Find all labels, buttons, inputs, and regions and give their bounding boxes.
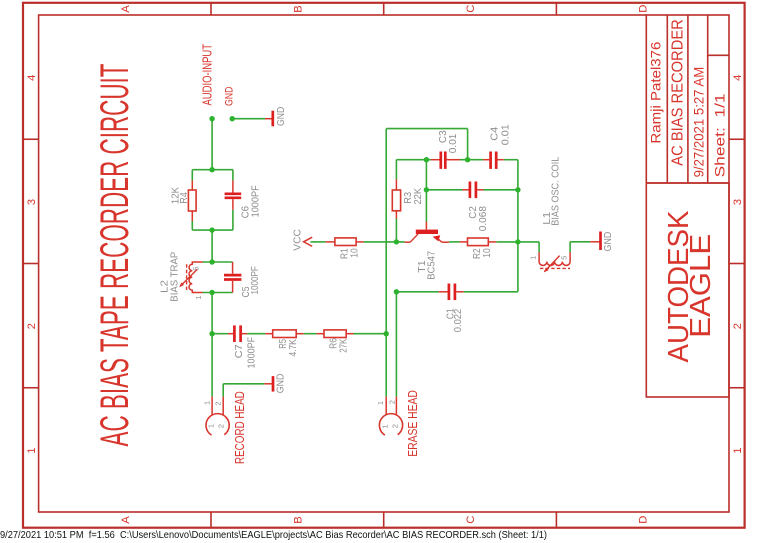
svg-text:1: 1 xyxy=(26,447,38,453)
svg-text:3: 3 xyxy=(26,199,38,205)
wire down to C7 row xyxy=(211,293,213,334)
resistor R2 xyxy=(460,238,497,259)
svg-text:AUDIO-INPUT: AUDIO-INPUT xyxy=(200,44,215,106)
capacitor C2 xyxy=(463,182,489,232)
svg-text:1: 1 xyxy=(376,401,385,405)
svg-text:ERASE HEAD: ERASE HEAD xyxy=(405,390,420,457)
svg-text:BC547: BC547 xyxy=(427,250,438,279)
capacitor C7 xyxy=(228,325,257,368)
svg-text:0.01: 0.01 xyxy=(448,133,459,153)
svg-text:22K: 22K xyxy=(413,188,424,205)
svg-text:A: A xyxy=(120,5,132,13)
svg-text:C7: C7 xyxy=(234,344,245,358)
ground symbol record head xyxy=(264,374,286,394)
svg-text:C4: C4 xyxy=(489,126,500,140)
svg-text:AC BIAS TAPE RECORDER CIRCUIT: AC BIAS TAPE RECORDER CIRCUIT xyxy=(93,64,137,447)
svg-text:A: A xyxy=(120,516,132,524)
frame row ticks left xyxy=(23,139,39,388)
svg-text:GND: GND xyxy=(276,107,287,126)
svg-text:1: 1 xyxy=(194,296,203,300)
svg-text:10: 10 xyxy=(349,248,360,258)
wire base rail xyxy=(425,160,427,222)
svg-text:GND: GND xyxy=(603,232,614,252)
svg-text:1000PF: 1000PF xyxy=(250,266,261,294)
wire record head pin1 xyxy=(211,334,213,397)
svg-text:1: 1 xyxy=(203,401,212,405)
connector RECORD HEAD xyxy=(203,391,247,464)
svg-text:0.01: 0.01 xyxy=(500,124,511,145)
svg-text:B: B xyxy=(293,516,305,524)
wire collector row xyxy=(311,241,518,243)
frame row labels right 4 3 2 1 xyxy=(732,75,744,454)
svg-text:4: 4 xyxy=(26,75,38,81)
wire record head pin2 to gnd xyxy=(223,384,264,397)
svg-text:B: B xyxy=(293,5,305,13)
svg-text:1000PF: 1000PF xyxy=(246,337,257,369)
resistor R1 xyxy=(326,238,364,259)
transistor T1 xyxy=(405,222,449,280)
svg-text:AC BIAS RECORDER: AC BIAS RECORDER xyxy=(670,19,687,166)
ground symbol L1 xyxy=(590,232,614,252)
svg-text:GND: GND xyxy=(224,87,236,106)
svg-text:3: 3 xyxy=(732,199,744,205)
svg-text:2: 2 xyxy=(732,323,744,329)
svg-text:4.7K: 4.7K xyxy=(288,339,299,356)
inductor L1 xyxy=(529,156,571,272)
svg-text:2: 2 xyxy=(391,424,400,428)
wire C1 row xyxy=(396,291,518,293)
svg-text:Ramji Patel376: Ramji Patel376 xyxy=(648,41,664,143)
svg-text:D: D xyxy=(638,516,650,524)
svg-text:D: D xyxy=(638,5,650,13)
resistor R3 xyxy=(392,179,424,218)
capacitor C6 xyxy=(225,180,262,218)
frame column ticks top xyxy=(211,3,556,15)
wire C3/C4 row xyxy=(396,159,518,161)
capacitor C4 xyxy=(483,124,511,169)
wire R4/C6 loop xyxy=(192,170,233,230)
svg-text:27K: 27K xyxy=(339,338,350,352)
wire feedback rail xyxy=(386,129,467,334)
svg-text:9/27/2021 5:27 AM: 9/27/2021 5:27 AM xyxy=(692,67,707,178)
wire C7/R5/R6 row xyxy=(212,333,386,335)
frame row ticks right xyxy=(729,139,745,388)
wire between loops xyxy=(211,230,213,262)
svg-text:2: 2 xyxy=(217,424,226,428)
junction dots xyxy=(209,116,520,336)
resistor R4 xyxy=(170,180,196,221)
svg-text:1: 1 xyxy=(529,256,538,260)
svg-text:2: 2 xyxy=(214,402,223,406)
svg-text:4: 4 xyxy=(732,75,744,81)
capacitor C5 xyxy=(224,262,261,298)
svg-text:10: 10 xyxy=(482,248,493,258)
frame column labels top A B C D xyxy=(120,5,650,13)
svg-text:BIAS TRAP: BIAS TRAP xyxy=(169,251,180,301)
wire erase head pin1 xyxy=(385,334,387,397)
wire C2 row xyxy=(426,189,518,191)
svg-text:C: C xyxy=(465,516,477,524)
wire gnd stub top xyxy=(232,118,265,120)
capacitor C1 xyxy=(439,284,464,333)
wire right rail xyxy=(517,160,519,292)
svg-text:RECORD HEAD: RECORD HEAD xyxy=(232,391,247,464)
capacitor C3 xyxy=(431,130,460,169)
connector ERASE HEAD xyxy=(376,390,420,457)
svg-text:GND: GND xyxy=(275,374,286,394)
wire erase head pin2 xyxy=(395,292,397,397)
svg-text:9/27/2021 10:51 PM f=1.56 C:: 9/27/2021 10:51 PM f=1.56 C:\Users\Lenov… xyxy=(0,530,547,541)
wire L1 branch xyxy=(518,242,590,253)
title block grid xyxy=(646,15,729,183)
svg-text:1: 1 xyxy=(380,424,389,428)
wire L2/C5 loop xyxy=(203,262,233,293)
svg-text:Sheet: 1/1: Sheet: 1/1 xyxy=(712,93,727,177)
svg-text:C: C xyxy=(465,5,477,13)
frame column labels bottom A B C D xyxy=(120,516,650,524)
ground symbol top xyxy=(265,107,287,127)
svg-text:0.022: 0.022 xyxy=(453,308,464,332)
wire R3 rail xyxy=(395,160,397,242)
resistor R6 xyxy=(317,330,354,353)
AUTODESK EAGLE watermark box xyxy=(646,183,729,397)
svg-text:5: 5 xyxy=(192,267,201,271)
svg-text:R4: R4 xyxy=(179,192,190,204)
resistor R5 xyxy=(265,330,303,357)
svg-text:0.068: 0.068 xyxy=(478,206,489,232)
svg-text:1: 1 xyxy=(732,447,744,453)
svg-text:VCC: VCC xyxy=(293,229,304,251)
frame row labels left 4 3 2 1 xyxy=(26,75,38,454)
svg-text:1000PF: 1000PF xyxy=(251,185,262,217)
net symbol VCC xyxy=(293,229,313,251)
svg-text:2: 2 xyxy=(26,323,38,329)
svg-text:EAGLE: EAGLE xyxy=(684,234,716,338)
frame column ticks bottom xyxy=(211,512,556,528)
inductor L2 xyxy=(160,251,203,301)
svg-text:1: 1 xyxy=(207,424,216,428)
svg-text:BIAS OSC. COIL: BIAS OSC. COIL xyxy=(551,156,562,225)
wire audio input vertical xyxy=(211,119,213,170)
svg-text:5: 5 xyxy=(560,256,569,260)
svg-text:2: 2 xyxy=(387,400,396,404)
